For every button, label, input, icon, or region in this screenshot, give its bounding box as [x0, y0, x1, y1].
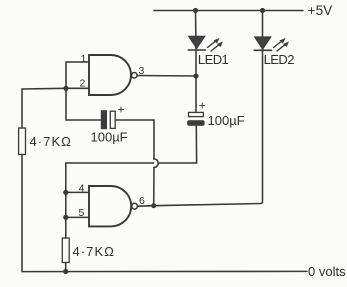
svg-text:100µF: 100µF	[208, 113, 245, 128]
node junction pin5	[63, 215, 68, 220]
svg-text:4·7KΩ: 4·7KΩ	[73, 244, 115, 259]
svg-text:+: +	[118, 103, 125, 117]
svg-text:2: 2	[80, 78, 86, 90]
wire pin4 input	[66, 191, 89, 193]
svg-text:4: 4	[79, 182, 85, 194]
wire pin3 output to LED1 node	[137, 75, 196, 78]
wire horizontal C2 to pin4 column	[66, 162, 197, 164]
NAND gate U1a body	[89, 55, 131, 95]
wire pin5 input	[66, 216, 89, 218]
svg-text:6: 6	[139, 195, 145, 207]
wire hop redraw (covers horizontal)	[154, 159, 158, 167]
node junction LED1 anode to +5V rail	[193, 8, 198, 13]
node junction R2 bottom on 0V rail	[63, 269, 68, 274]
svg-text:LED2: LED2	[264, 52, 295, 67]
capacitor C1 negative plate	[101, 111, 106, 129]
resistor R2 body	[62, 238, 69, 263]
wire hop over horizontal	[154, 159, 158, 167]
wire LED1 anode drop	[195, 11, 198, 50]
svg-text:0 volts: 0 volts	[308, 264, 346, 279]
capacitor C1 positive plate	[110, 111, 115, 128]
svg-text:+: +	[199, 99, 206, 113]
wire LED2 cathode down and left to pin6 node	[154, 50, 263, 206]
NAND gate U1b output bubble pin6	[132, 203, 138, 209]
wire pin1 input loop	[66, 62, 89, 88]
wire left column to pin4 pin5 R2	[65, 163, 67, 238]
svg-text:5: 5	[79, 207, 85, 219]
LED D2 light arrow 2	[277, 42, 289, 52]
wire C2 bottom lead	[195, 125, 197, 163]
node junction LED2 anode to +5V rail	[260, 8, 265, 13]
node junction pin4	[63, 190, 68, 195]
svg-text:LED1: LED1	[198, 52, 229, 67]
NAND gate U1a output bubble pin3	[132, 73, 138, 79]
wire R1 bottom to 0V rail	[22, 155, 307, 272]
wire R2 bottom to 0V rail	[65, 263, 67, 272]
svg-text:4·7KΩ: 4·7KΩ	[30, 134, 72, 149]
wire node to R1 top	[22, 88, 66, 128]
wire LED1 cathode to node of pin3	[195, 50, 197, 77]
NAND gate U1b body	[89, 186, 131, 226]
wire C2 positive lead from pin3 node	[195, 76, 197, 112]
capacitor C2 negative plate	[188, 121, 205, 126]
LED D1 light arrow 1	[208, 38, 220, 48]
LED D2 cathode bar	[254, 49, 271, 51]
LED D2 light arrow 1	[274, 38, 286, 48]
wire pin2 input	[66, 87, 89, 89]
resistor R1 body	[19, 128, 26, 155]
wire node to C1 left plate	[66, 88, 101, 120]
wire pin6 output	[138, 205, 154, 208]
svg-text:1: 1	[81, 53, 87, 65]
svg-text:+5V: +5V	[308, 3, 333, 18]
node junction pin3 LED1 C2	[193, 73, 198, 78]
wire hop bottom to pin6 node	[153, 167, 155, 205]
wire C1 right plate to vertical	[115, 120, 154, 159]
svg-text:100µF: 100µF	[91, 130, 128, 145]
wire +5V top rail	[154, 10, 303, 12]
LED D2 triangle	[255, 37, 271, 49]
LED D1 triangle	[189, 36, 205, 48]
svg-text:3: 3	[139, 65, 145, 77]
capacitor C2 positive plate	[189, 112, 204, 116]
node junction pin6 C1 LED2	[151, 203, 156, 208]
node junction pins1-2 feedback	[63, 86, 68, 91]
LED D1 light arrow 2	[211, 42, 223, 52]
wire LED2 anode drop	[262, 11, 264, 51]
LED D1 cathode bar	[188, 49, 205, 51]
